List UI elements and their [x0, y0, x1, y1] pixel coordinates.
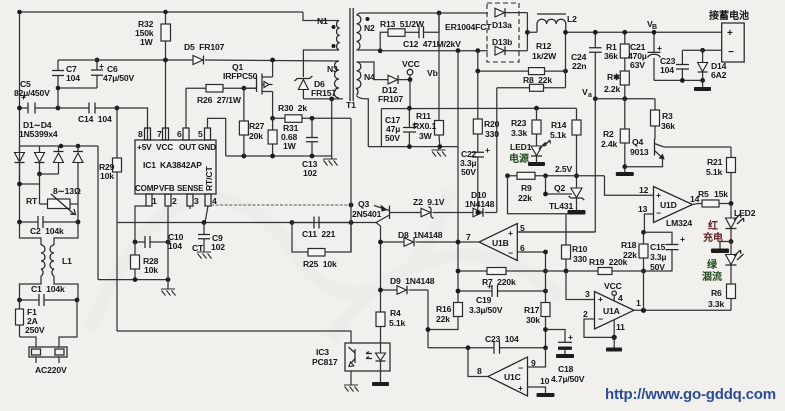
pin 4 — [205, 194, 217, 206]
svg-text:104: 104 — [660, 65, 674, 75]
wire U1A pin11 — [612, 320, 626, 341]
wire U1D pin14 out — [690, 194, 702, 205]
wire long feedback to IC3 — [117, 331, 351, 343]
inductor L2 — [527, 14, 721, 32]
svg-text:3W: 3W — [419, 131, 433, 141]
resistor R10 330 — [562, 214, 588, 274]
resistor R18 — [621, 230, 648, 273]
svg-text:13: 13 — [638, 204, 648, 214]
svg-text:5.1k: 5.1k — [706, 167, 722, 177]
svg-text:R21: R21 — [707, 157, 723, 167]
svg-text:+: + — [680, 234, 685, 244]
wire Q3 collector column — [376, 223, 381, 313]
bridge rectifier D1~D4 label — [19, 120, 58, 139]
ground under D14 — [694, 80, 711, 91]
svg-text:LM324: LM324 — [666, 218, 692, 228]
diode D9 1N4148 — [378, 276, 435, 294]
svg-text:C18: C18 — [558, 364, 574, 374]
ground stub between LEDs — [711, 242, 731, 254]
svg-text:绿: 绿 — [707, 258, 718, 271]
wire pin4 to CT node and faint row to Q3 — [205, 206, 208, 223]
wire N3 column down — [350, 118, 352, 252]
wire D6 to N3 bottom — [303, 98, 343, 100]
wire VCC column to rail108 — [409, 80, 411, 109]
svg-text:D13b: D13b — [492, 37, 512, 47]
capacitor C24 — [571, 30, 602, 99]
wire rail 146.6 — [368, 146, 458, 148]
svg-text:1N5399x4: 1N5399x4 — [19, 129, 58, 139]
svg-text:U1B: U1B — [492, 238, 509, 248]
svg-text:RT/CT: RT/CT — [204, 166, 214, 191]
svg-text:R10: R10 — [572, 244, 588, 254]
resistor R7 220k — [456, 240, 548, 287]
node VB — [647, 19, 657, 31]
svg-text:+: + — [518, 383, 523, 393]
svg-text:2.4k: 2.4k — [601, 139, 617, 149]
svg-text:+: + — [508, 228, 513, 238]
svg-text:R13 51/2W: R13 51/2W — [380, 19, 425, 29]
AC plug — [20, 300, 78, 375]
svg-text:2.5V: 2.5V — [555, 164, 572, 174]
op-amp U1B — [466, 224, 517, 261]
svg-text:R8 22k: R8 22k — [523, 75, 552, 85]
svg-text:IRFPC50: IRFPC50 — [223, 71, 258, 81]
svg-text:+: + — [412, 119, 417, 129]
svg-text:R12: R12 — [536, 41, 552, 51]
transistor Q1 IRFPC50 — [223, 62, 273, 95]
svg-text:FR107: FR107 — [378, 94, 403, 104]
wire pin2 column — [167, 206, 169, 280]
resistor Rx 2.2k — [604, 71, 629, 99]
wire pin3 stub — [189, 206, 191, 209]
pin 5 — [198, 128, 211, 140]
svg-text:R9: R9 — [521, 183, 532, 193]
svg-text:C14 104: C14 104 — [78, 114, 112, 124]
svg-text:Z2 9.1V: Z2 9.1V — [413, 197, 445, 207]
svg-text:D9 1N4148: D9 1N4148 — [390, 276, 435, 286]
svg-text:36k: 36k — [661, 121, 675, 131]
svg-text:3.3µ: 3.3µ — [650, 252, 666, 262]
svg-text:10: 10 — [540, 376, 550, 386]
svg-text:−: − — [518, 363, 523, 373]
svg-text:9: 9 — [531, 358, 536, 368]
pin 3 — [187, 194, 199, 206]
wire feedback main column — [457, 51, 459, 303]
svg-text:U1A: U1A — [603, 306, 620, 316]
svg-text:+5V: +5V — [137, 142, 152, 152]
wire N1 top jog — [303, 12, 339, 21]
svg-text:KA3842AP: KA3842AP — [160, 160, 202, 170]
svg-text:R4: R4 — [390, 308, 401, 318]
svg-text:R2: R2 — [603, 129, 614, 139]
resistor R8 — [497, 75, 566, 91]
svg-text:C19: C19 — [476, 295, 492, 305]
svg-text:22k: 22k — [518, 193, 532, 203]
svg-text:PC817: PC817 — [312, 357, 338, 367]
svg-text:30k: 30k — [526, 315, 540, 325]
pin 8 — [138, 128, 151, 140]
svg-text:C15: C15 — [650, 242, 666, 252]
resistor R17 — [524, 252, 550, 348]
svg-text:5: 5 — [198, 129, 203, 139]
wire Va sense column — [594, 99, 596, 232]
wire bridge top rail — [20, 145, 99, 147]
svg-text:11: 11 — [616, 322, 625, 332]
svg-text:IC1: IC1 — [143, 160, 156, 170]
svg-text:VFB: VFB — [159, 184, 175, 193]
resistor R13 — [380, 19, 425, 51]
wire row 222 long — [117, 222, 368, 224]
wire R29 column down to feedback — [116, 223, 118, 332]
transformer T1 core — [346, 8, 356, 110]
svg-text:10k: 10k — [100, 171, 114, 181]
svg-text:36k: 36k — [604, 51, 618, 61]
op-amp U1D — [638, 185, 693, 228]
capacitor C10 — [133, 232, 184, 251]
svg-text:3.3k: 3.3k — [511, 128, 527, 138]
wire 2.5V jog to U1D pin12 — [605, 176, 654, 196]
svg-text:GND: GND — [198, 142, 216, 152]
svg-text:R16: R16 — [436, 304, 452, 314]
svg-text:C1 104k: C1 104k — [31, 284, 65, 294]
wire U1A pin2 loop — [583, 309, 614, 337]
node VCC U1A pin4 — [604, 281, 623, 303]
svg-text:Q3: Q3 — [358, 199, 370, 209]
wire R32 to IC1 pin7 — [165, 60, 167, 140]
svg-text:3.3k: 3.3k — [708, 299, 724, 309]
ground under R2 — [616, 164, 634, 176]
pin 7 — [157, 128, 169, 140]
svg-text:D13a: D13a — [492, 20, 512, 30]
wire N4 top to D12 — [357, 62, 389, 80]
svg-text:1k/2W: 1k/2W — [532, 51, 557, 61]
node VCC — [402, 59, 420, 82]
resistor R19 220k — [546, 257, 644, 275]
ground under pin2 rail — [161, 280, 176, 296]
svg-text:D8 1N4148: D8 1N4148 — [398, 230, 443, 240]
wire C7/C6 bottom rail — [58, 88, 97, 108]
diode D3 — [54, 146, 64, 174]
svg-text:LED1: LED1 — [510, 142, 532, 152]
resistor R28 — [131, 242, 159, 280]
svg-text:50V: 50V — [461, 167, 476, 177]
resistor R16 — [426, 303, 463, 332]
transistor Q3 2N5401 — [352, 199, 390, 223]
wire U1A pin1 output — [634, 298, 731, 313]
battery 接蓄电池 — [709, 9, 749, 62]
svg-text:+: + — [99, 61, 104, 71]
svg-text:2: 2 — [583, 309, 588, 319]
svg-text:R19 220k: R19 220k — [589, 257, 628, 267]
wire Vcc rail y60 — [58, 60, 339, 61]
diode D1 — [15, 146, 25, 184]
transformer T1 winding N2 — [357, 15, 376, 50]
resistor R27 — [239, 88, 264, 156]
capacitor C12 — [403, 13, 461, 49]
capacitor C11 — [292, 217, 351, 240]
wire U1C pin9 — [528, 348, 546, 368]
svg-text:6: 6 — [520, 243, 525, 253]
resistor R11 — [413, 111, 444, 147]
svg-text:+: + — [598, 294, 603, 304]
capacitor C17 — [381, 108, 417, 146]
svg-text:8∼13Ω: 8∼13Ω — [53, 186, 81, 196]
svg-text:L2: L2 — [567, 14, 577, 24]
svg-text:4.7µ/50V: 4.7µ/50V — [551, 374, 585, 384]
wire to IC1 pin8 — [117, 108, 148, 140]
svg-text:红: 红 — [708, 219, 718, 232]
svg-text:330: 330 — [485, 129, 499, 139]
wire U1B pin6 row — [517, 243, 548, 254]
wire primary ground bus — [226, 155, 332, 157]
wire U1B pin5 row — [517, 223, 595, 233]
svg-text:R18: R18 — [621, 240, 637, 250]
resistor R5 15k — [698, 189, 733, 207]
svg-text:2N5401: 2N5401 — [352, 209, 382, 219]
svg-text:OUT: OUT — [179, 142, 196, 152]
resistor R29 — [99, 108, 122, 223]
capacitor C13 — [302, 118, 318, 178]
svg-text:R3: R3 — [662, 111, 673, 121]
node top-left junction — [17, 10, 22, 15]
capacitor C7 — [52, 60, 80, 88]
svg-text:1W: 1W — [283, 141, 297, 151]
wire R10 node to U1A pin3 — [566, 271, 595, 300]
svg-text:50V: 50V — [385, 133, 400, 143]
resistor R14 — [550, 108, 581, 188]
svg-text:63V: 63V — [630, 60, 645, 70]
resistor R6 3.3k — [708, 284, 736, 310]
svg-text:VCC: VCC — [402, 59, 420, 69]
svg-text:R17: R17 — [524, 305, 540, 315]
svg-text:T1: T1 — [346, 100, 356, 110]
svg-text:C23 104: C23 104 — [485, 334, 519, 344]
wire top rail — [20, 11, 304, 13]
svg-text:5.1k: 5.1k — [550, 130, 566, 140]
svg-text:22n: 22n — [572, 61, 586, 71]
svg-text:C11 221: C11 221 — [302, 229, 336, 239]
svg-text:6A2: 6A2 — [711, 70, 727, 80]
capacitor C21 — [628, 30, 662, 81]
svg-text:7: 7 — [466, 232, 471, 242]
transformer T1 winding N1 — [317, 16, 339, 50]
capacitor C22 — [460, 145, 490, 213]
wire U1B pin5 riser junction — [517, 231, 595, 233]
svg-text:涸流: 涸流 — [702, 270, 722, 283]
svg-text:5.1k: 5.1k — [389, 318, 405, 328]
wire U1C pin8 — [468, 348, 488, 377]
svg-text:VCC: VCC — [604, 281, 622, 291]
ground IC3 right — [372, 371, 389, 386]
wire bridge output column — [97, 146, 99, 280]
svg-text:COMP: COMP — [135, 184, 159, 193]
svg-text:R30 2k: R30 2k — [278, 103, 307, 113]
svg-text:+: + — [727, 28, 733, 39]
wire rail 50.7 to D13b — [380, 50, 488, 52]
svg-text:R25 10k: R25 10k — [303, 259, 337, 269]
capacitor C23 top — [660, 50, 703, 80]
svg-text:1N4148: 1N4148 — [465, 199, 495, 209]
svg-text:R23: R23 — [511, 118, 527, 128]
optocoupler IC3 PC817 — [312, 343, 390, 371]
capacitor C6 — [91, 58, 135, 88]
diode D13b — [492, 37, 527, 55]
svg-text:R✱: R✱ — [607, 72, 621, 82]
wire N2 top to rail13 — [357, 13, 489, 15]
capacitor C9 with CT — [192, 223, 225, 259]
svg-text:VCC: VCC — [156, 142, 173, 152]
svg-text:12: 12 — [639, 185, 649, 195]
svg-text:RT: RT — [26, 196, 38, 206]
svg-text:Q2: Q2 — [554, 183, 566, 193]
svg-text:50V: 50V — [650, 262, 665, 272]
svg-text:N3: N3 — [327, 64, 338, 74]
wire feedback column R18 node to output — [643, 271, 645, 310]
svg-text:C2 104k: C2 104k — [30, 226, 64, 236]
node Va rail — [582, 87, 655, 101]
svg-text:电源: 电源 — [509, 152, 529, 165]
resistor R26 — [197, 85, 257, 106]
svg-text:1: 1 — [152, 196, 157, 206]
svg-text:2: 2 — [172, 196, 177, 206]
svg-text:+: + — [568, 332, 573, 342]
wire pin1 to COMP node — [135, 206, 149, 242]
diode D13a — [492, 8, 527, 30]
ground IC3 left — [344, 371, 359, 392]
svg-text:104: 104 — [66, 73, 80, 83]
svg-text:9013: 9013 — [630, 147, 649, 157]
svg-text:15k: 15k — [714, 189, 728, 199]
svg-text:1W: 1W — [140, 37, 154, 47]
svg-text:R20: R20 — [484, 119, 500, 129]
svg-text:IC3: IC3 — [316, 347, 329, 357]
fuse F1 — [16, 300, 45, 337]
transistor Q4 9013 — [625, 137, 665, 167]
svg-text:8: 8 — [138, 129, 143, 139]
inductor L1 — [20, 222, 79, 300]
shunt Q2 TL431 — [543, 176, 585, 215]
resistor R2 — [601, 99, 629, 167]
pin 2 — [165, 194, 177, 206]
ground on rail 146.6 — [432, 147, 447, 157]
svg-text:N2: N2 — [364, 23, 375, 33]
diode D8 1N4148 — [378, 230, 479, 246]
svg-text:N1: N1 — [317, 16, 328, 26]
svg-text:R14: R14 — [551, 120, 567, 130]
svg-text:U1C: U1C — [504, 372, 521, 382]
resistor R32 — [135, 10, 171, 63]
diode D6 FR157 — [294, 76, 336, 99]
svg-text:R27: R27 — [249, 121, 265, 131]
wire VB sense column — [565, 32, 567, 88]
ground under U1A — [606, 337, 622, 351]
op-amp U1C — [477, 357, 528, 396]
capacitor C18 — [546, 330, 585, 385]
resistor R4 — [376, 308, 405, 343]
LED2 green — [702, 242, 744, 285]
capacitor C14 — [58, 103, 119, 125]
wire D13 output column — [526, 13, 528, 51]
resistor R25 loop — [292, 223, 351, 270]
svg-text:http://www.go-gddq.com: http://www.go-gddq.com — [605, 386, 776, 403]
pin 6 — [177, 128, 189, 140]
svg-text:102: 102 — [303, 168, 317, 178]
wire 2.5V rail — [505, 164, 604, 178]
capacitor C19 — [456, 281, 548, 315]
wire R8 tap column — [496, 88, 498, 213]
svg-text:3: 3 — [585, 289, 590, 299]
svg-text:250V: 250V — [25, 325, 45, 335]
svg-text:R5: R5 — [698, 189, 709, 199]
svg-text:B: B — [652, 24, 657, 31]
svg-text:+: + — [657, 43, 662, 53]
svg-text:+: + — [485, 145, 490, 155]
resistor R21 — [706, 147, 736, 204]
wire Q1 source — [272, 92, 274, 119]
svg-text:R6: R6 — [711, 288, 722, 298]
diode pack ER1004FCT dashed box — [445, 3, 519, 62]
svg-text:L1: L1 — [62, 256, 72, 266]
svg-text:C12 471M/2kV: C12 471M/2kV — [403, 39, 461, 49]
capacitor C23 104 — [428, 334, 548, 354]
resistor R20 — [473, 71, 499, 152]
capacitor C15 — [644, 232, 686, 272]
wire U1D pin13 — [644, 214, 653, 232]
zener Z2 9.1V — [413, 197, 445, 218]
svg-text:接蓄电池: 接蓄电池 — [709, 9, 749, 22]
resistor R1 — [604, 30, 629, 71]
wire U1C pin10 to ground — [528, 376, 555, 397]
svg-text:−: − — [728, 47, 734, 58]
wire N1 bottom to D6 column — [303, 50, 339, 77]
op-amp IC1 KA3842AP box — [135, 140, 216, 194]
wire R9 left leg to gnd row — [508, 176, 569, 214]
capacitor C5 — [14, 79, 60, 114]
svg-text:U1D: U1D — [660, 200, 677, 210]
diode D2 — [35, 146, 45, 176]
diode D12 FR107 — [378, 75, 410, 104]
transformer T1 winding N4 — [357, 62, 376, 95]
svg-text:3.3µ/50V: 3.3µ/50V — [469, 305, 503, 315]
resistor R9 22k — [517, 172, 535, 203]
wire C21/C23/D14 ground row — [654, 79, 703, 81]
wire pin6 to R26 — [186, 88, 206, 128]
diode D5 — [184, 42, 225, 65]
wire R30 row — [273, 117, 351, 119]
wire Vb column — [427, 13, 439, 121]
wire Z2/D10 row — [390, 212, 497, 214]
wire snubber return column — [331, 99, 333, 156]
capacitor C2 — [17, 204, 80, 236]
op-amp U1A — [595, 292, 635, 330]
transformer T1 winding N3 — [327, 61, 339, 98]
ground at primary bus — [323, 156, 338, 166]
wire battery minus row — [703, 49, 722, 51]
svg-text:Vb: Vb — [427, 68, 438, 78]
svg-text:AC220V: AC220V — [35, 365, 67, 375]
svg-text:4: 4 — [618, 293, 623, 303]
svg-text:ER1004FCT: ER1004FCT — [445, 22, 492, 32]
svg-text:102: 102 — [211, 242, 225, 252]
svg-text:20k: 20k — [249, 131, 263, 141]
wire secondary VCC rail 108 — [381, 107, 576, 109]
svg-text:6: 6 — [177, 129, 182, 139]
svg-text:47µ/50V: 47µ/50V — [103, 73, 135, 83]
svg-text:−: − — [508, 248, 513, 258]
LED1 电源 — [509, 140, 550, 166]
pin 1 — [146, 194, 157, 206]
diode D14 6A2 — [698, 50, 727, 80]
